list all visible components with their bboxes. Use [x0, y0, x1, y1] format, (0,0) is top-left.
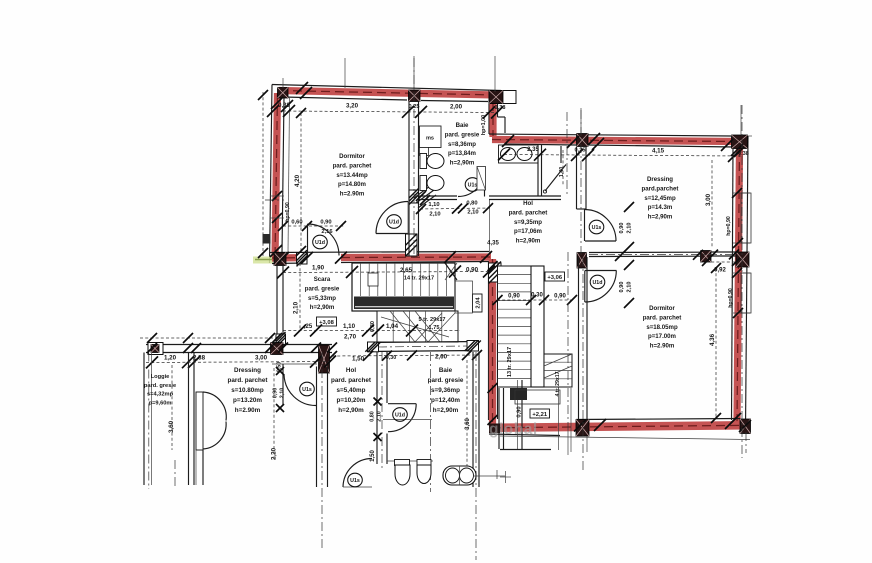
svg-text:h=2,90m: h=2,90m [433, 407, 459, 414]
svg-text:Dressing: Dressing [234, 367, 261, 374]
baie/stair divider wall [472, 352, 474, 487]
svg-text:Dressing: Dressing [647, 176, 673, 183]
svg-text:p=14.3m: p=14.3m [648, 204, 673, 211]
door U1d dormitor-bottom: leaf and arc [585, 270, 617, 272]
svg-text:5 tr. 29x17: 5 tr. 29x17 [418, 317, 445, 323]
left outer dim chain [262, 92, 264, 256]
svg-text:0,90: 0,90 [320, 220, 331, 226]
dims baie bottom door [420, 208, 490, 209]
svg-text:2,60: 2,60 [435, 354, 448, 361]
svg-text:1,50: 1,50 [370, 450, 376, 462]
svg-text:2,00: 2,00 [450, 104, 463, 111]
line below bottom wall [500, 436, 750, 440]
wall left exterior (red) [270, 85, 273, 264]
svg-text:2,10: 2,10 [429, 212, 440, 218]
wall right exterior (red) [746, 136, 749, 430]
svg-text:0,90: 0,90 [466, 267, 479, 274]
pillar at x270 [271, 343, 284, 355]
svg-text:2,35: 2,35 [527, 147, 539, 153]
svg-text:s=8,36mp: s=8,36mp [448, 141, 476, 148]
svg-text:hp=0,90: hp=0,90 [728, 288, 734, 308]
right wall outer line [748, 135, 752, 137]
svg-text:0,80: 0,80 [370, 411, 376, 422]
svg-text:s=5,33mp: s=5,33mp [308, 295, 336, 302]
baie/hol small divider wall [489, 195, 561, 197]
cross mark [500, 476, 511, 478]
dim line below wall [146, 362, 332, 363]
svg-text:0,60: 0,60 [291, 220, 302, 226]
dims near dormitor door [283, 225, 345, 227]
wall bath step (red) [488, 104, 490, 134]
window frames right wall [741, 193, 751, 243]
WC upper bath [420, 154, 427, 169]
svg-text:2,10: 2,10 [280, 388, 286, 399]
svg-text:14 tr. 29x17: 14 tr. 29x17 [404, 276, 434, 282]
svg-text:4,36: 4,36 [709, 333, 716, 346]
svg-text:p=17,06m: p=17,06m [514, 228, 543, 235]
svg-text:2,65: 2,65 [400, 267, 413, 274]
svg-text:s=12,45mp: s=12,45mp [644, 195, 676, 202]
french door loggia [196, 392, 203, 450]
bidet lower bath [417, 460, 431, 466]
niche shaft left of stair wall [477, 167, 486, 191]
extension lines mid wall [580, 108, 582, 134]
level box +3,06 [545, 272, 565, 281]
svg-text:0,90: 0,90 [619, 223, 625, 234]
svg-text:2,10: 2,10 [467, 210, 478, 216]
left wall below scara corner [276, 265, 278, 334]
dim 0,92 [706, 261, 736, 263]
svg-text:U1d: U1d [395, 413, 405, 419]
svg-text:U1d: U1d [389, 220, 399, 226]
stair flight 4tr [544, 354, 572, 387]
wall hol/dressing divider [576, 147, 578, 209]
dim 4,36 rotated [715, 268, 717, 418]
svg-text:1,20: 1,20 [164, 355, 177, 362]
pier baie/hol wall above mid wall [406, 234, 418, 256]
pillar dressing/dormitor wall left [577, 253, 587, 269]
door U1s baie top: leaf and arc [484, 170, 486, 197]
svg-text:s=18.05mp: s=18.05mp [646, 324, 678, 331]
pier right of scara door opening [297, 253, 308, 265]
svg-text:s=9,36mp: s=9,36mp [431, 387, 460, 394]
window marker left wall [263, 234, 271, 244]
svg-text:h=2,90m: h=2,90m [338, 407, 364, 414]
svg-text:U1d: U1d [315, 240, 325, 246]
svg-text:U1s: U1s [468, 183, 478, 189]
svg-text:pard. gresie: pard. gresie [445, 131, 480, 138]
svg-text:0,90: 0,90 [554, 294, 566, 300]
stair landing dark bar [354, 297, 454, 310]
hol-bottom top wall band [368, 342, 478, 343]
pillar dressing/dormitor wall right [736, 252, 749, 267]
door circle U1d hol-top [387, 215, 402, 229]
svg-text:s=5,40mp: s=5,40mp [337, 387, 366, 394]
svg-text:h=2.90m: h=2.90m [235, 407, 261, 414]
hatch at baie door frame [416, 190, 434, 203]
pillar dressing/dormitor wall mid [701, 251, 712, 263]
door circle U1s dressing-bottom [300, 382, 315, 396]
svg-text:2,10: 2,10 [377, 411, 383, 422]
svg-text:pard. parchet: pard. parchet [643, 314, 682, 321]
pillar top-right corner [732, 135, 748, 149]
svg-text:h=2.90m: h=2.90m [650, 343, 675, 350]
pillar bottom wall left [576, 420, 589, 437]
pier top of stair red wall [489, 263, 502, 282]
basin counter upper bath [499, 145, 539, 163]
bidet upper bath [420, 176, 427, 191]
svg-text:3,00: 3,00 [705, 193, 712, 206]
svg-text:2,10: 2,10 [627, 223, 633, 234]
svg-text:4,35: 4,35 [487, 241, 499, 247]
top dim chain [283, 111, 497, 113]
svg-text:pard. gresie: pard. gresie [144, 383, 176, 389]
svg-text:Hol: Hol [346, 367, 356, 374]
svg-text:h=2,90m: h=2,90m [516, 238, 541, 245]
svg-text:Dormitor: Dormitor [649, 305, 675, 312]
svg-text:Baie: Baie [456, 122, 469, 129]
door circle U1d dormitor-top [313, 235, 328, 249]
svg-text:h=2.90m: h=2.90m [340, 191, 365, 198]
svg-text:ms: ms [426, 136, 434, 142]
pillar top-left corner [278, 88, 289, 99]
svg-text:Hol: Hol [523, 200, 533, 207]
svg-text:global: global [489, 421, 538, 438]
stair cut diagonal [445, 263, 457, 280]
door circle U1s baie [465, 178, 480, 192]
door U1d dormitor-top: leaf and arc [307, 224, 309, 256]
stair lower flight 5tr [377, 311, 458, 342]
svg-text:1,40: 1,40 [559, 167, 565, 178]
svg-text:Baie: Baie [439, 367, 453, 374]
double basin lower bath [443, 466, 476, 485]
svg-text:pard.parchet: pard.parchet [642, 185, 679, 192]
scara vertical dim 2,10 [299, 263, 301, 330]
baie bottom wall [419, 195, 458, 197]
long wall lower apartment [146, 344, 332, 346]
svg-text:p=10,20m: p=10,20m [337, 397, 366, 404]
ticks second wall [588, 133, 600, 145]
svg-text:pard. parchet: pard. parchet [509, 209, 548, 216]
stair small box [368, 273, 378, 286]
level box +2,21 [530, 409, 550, 418]
loggia/dressing divider wall [188, 353, 190, 486]
level box 2,04 rotated [473, 294, 483, 312]
diagonal door leaf to baie corner [545, 165, 566, 192]
svg-text:+2,21: +2,21 [532, 412, 547, 418]
washing machine box ms [420, 126, 442, 148]
top extension lines [344, 58, 346, 88]
pillar bottom-right corner [740, 419, 751, 434]
svg-text:2,04: 2,04 [475, 297, 481, 309]
hol/baie-bottom divider wall [376, 352, 378, 464]
svg-text:3,00: 3,00 [255, 355, 268, 362]
door circle U1d dormitor-bottom [590, 275, 605, 289]
svg-text:pard. parchet: pard. parchet [333, 162, 372, 169]
ticks on top wall [296, 82, 308, 94]
svg-text:Scara: Scara [314, 276, 331, 283]
dressing-bottom/hol divider wall [316, 367, 318, 488]
svg-text:0,90: 0,90 [508, 294, 520, 300]
svg-text:s=10.80mp: s=10.80mp [231, 387, 264, 394]
svg-text:3,20: 3,20 [346, 103, 359, 110]
wall bottom-right exterior (red) [576, 419, 740, 420]
svg-text:1,50: 1,50 [352, 356, 365, 363]
pillar bottom wall corner small [489, 424, 500, 434]
svg-text:U1s: U1s [350, 478, 360, 484]
door circle U1d baie-bottom [393, 408, 408, 422]
svg-text:U1d: U1d [592, 280, 602, 286]
pillar left mid corner [274, 253, 286, 266]
svg-text:s=4,32mp: s=4,32mp [147, 392, 174, 398]
svg-text:p=12,40m: p=12,40m [431, 397, 460, 404]
svg-text:4,20: 4,20 [294, 174, 301, 187]
wall top exterior (red) [272, 85, 501, 91]
WC lower bath [395, 460, 410, 466]
svg-text:2,10: 2,10 [293, 301, 300, 314]
wall mid horizontal at stair top (red) [270, 252, 490, 253]
dim 3,00 rotated [711, 160, 713, 248]
svg-text:Loggie: Loggie [151, 374, 170, 380]
stair right flight 13tr [498, 266, 532, 387]
door U1s bottom: arc [343, 459, 372, 488]
stair upper flight 14tr [352, 263, 455, 311]
svg-text:p=13,84m: p=13,84m [448, 150, 477, 157]
pillar at x318 taller [319, 345, 330, 373]
svg-text:p=14.80m: p=14.80m [338, 181, 367, 188]
svg-text:s=9,35mp: s=9,35mp [514, 219, 542, 226]
svg-text:3,60: 3,60 [465, 418, 471, 430]
svg-text:13 tr. 29x17: 13 tr. 29x17 [507, 347, 513, 377]
svg-text:1,04: 1,04 [386, 323, 399, 330]
svg-text:0,90: 0,90 [619, 282, 625, 293]
svg-text:4,15: 4,15 [652, 148, 665, 155]
svg-text:p=17.00m: p=17.00m [648, 333, 677, 340]
svg-text:U1s: U1s [592, 225, 602, 231]
svg-text:0,90: 0,90 [517, 406, 523, 417]
svg-text:Dormitor: Dormitor [339, 153, 365, 160]
svg-text:pard. parchet: pard. parchet [228, 377, 269, 384]
wall dressing/dormitor divider [589, 251, 700, 253]
svg-text:h=2,90m: h=2,90m [450, 160, 475, 167]
svg-text:pard. gresie: pard. gresie [305, 285, 340, 292]
svg-text:1,90: 1,90 [312, 265, 325, 272]
hol-top closet wall and door [376, 233, 408, 235]
svg-text:1,10: 1,10 [343, 323, 356, 330]
pillar top wall mid [409, 90, 421, 102]
svg-text:U1s: U1s [302, 387, 312, 393]
svg-text:0,90: 0,90 [273, 388, 279, 399]
pillar top bath corner [489, 91, 516, 104]
svg-text:2,16: 2,16 [321, 229, 333, 235]
wall stair-side vertical (red) [488, 262, 490, 421]
door U1d baie-bottom: leaf and arc [388, 403, 416, 405]
axis lines [413, 58, 415, 258]
lower fixtures wall line [387, 460, 433, 462]
svg-text:pard. parchet: pard. parchet [331, 377, 372, 384]
scara dim line [283, 272, 489, 273]
door circle U1s dressing [589, 220, 604, 234]
svg-text:2,10: 2,10 [627, 282, 633, 293]
svg-text:hp=0,90: hp=0,90 [726, 216, 732, 236]
svg-text:hp=0,90: hp=0,90 [285, 202, 291, 222]
svg-text:p=9,60m: p=9,60m [149, 400, 172, 406]
counter line right [473, 475, 505, 477]
svg-text:p=13.20m: p=13.20m [233, 397, 262, 404]
dim 4,20 vertical [300, 113, 302, 251]
gap rect right of stairs [455, 281, 473, 313]
level box +3,08 [317, 317, 337, 326]
svg-text:h=2,90m: h=2,90m [648, 214, 673, 221]
pillar loggia wall left [148, 343, 163, 355]
svg-text:3,60: 3,60 [168, 420, 175, 433]
svg-text:1,10: 1,10 [428, 202, 439, 208]
counter side wall [537, 145, 539, 196]
wall stair/dormitor vertical [578, 257, 580, 420]
wall dormitor/baie divider [408, 102, 410, 256]
stair arrow [381, 317, 449, 337]
wall upper-mid horizontal (red) [489, 134, 731, 136]
stair bottom area walls [498, 388, 500, 449]
svg-text:+3,06: +3,06 [547, 275, 562, 281]
stair stringer [531, 266, 544, 387]
svg-text:1,75: 1,75 [429, 325, 440, 331]
loggia left wall [143, 353, 145, 486]
svg-text:h=2,90m: h=2,90m [310, 304, 335, 311]
door U1s dressing: leaf and arc [584, 210, 586, 242]
svg-text:s=13.44mp: s=13.44mp [336, 172, 368, 179]
scara lower dim line [283, 330, 460, 332]
green marker dash [253, 257, 273, 264]
door U1s dressing-bottom: arc [272, 363, 317, 365]
stair dim 0,90 0,30 0,90 [497, 299, 575, 301]
svg-text:pard. gresie: pard. gresie [428, 377, 464, 384]
pillar on upper-mid wall [577, 134, 589, 147]
svg-text:2,70: 2,70 [344, 334, 357, 341]
ticks mid wall and stair wall [277, 252, 289, 264]
pier hatch at baie door [409, 190, 419, 203]
dim chain above wall [140, 337, 283, 339]
second dim chain (upper mid wall) [504, 155, 741, 157]
door circle U1s bottom [348, 473, 363, 487]
